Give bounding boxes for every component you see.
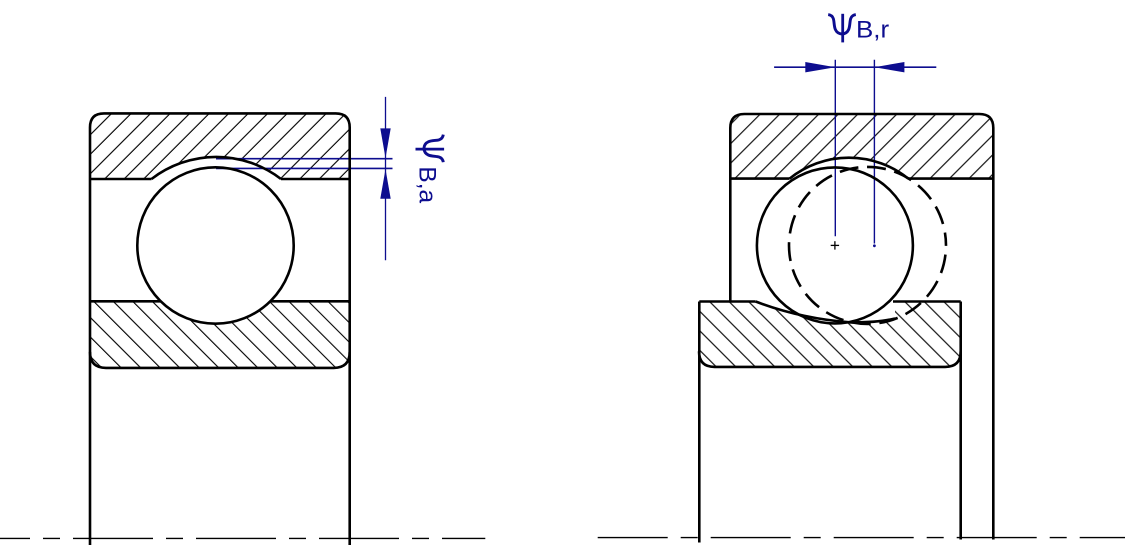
svg-text:B,r: B,r (856, 16, 889, 43)
svg-text:B,a: B,a (414, 166, 441, 203)
